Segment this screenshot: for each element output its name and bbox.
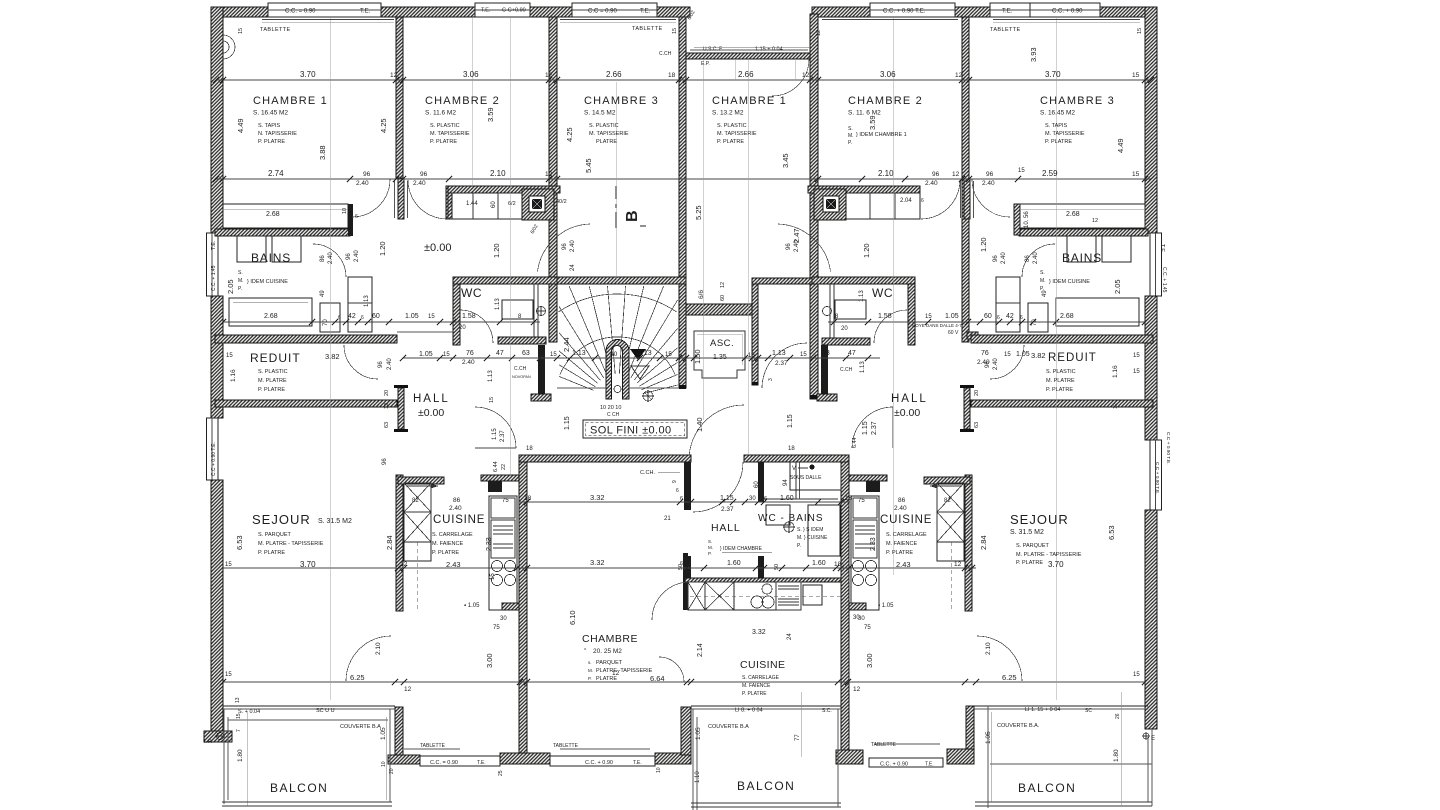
window T.E. chambre2 left bbox=[475, 3, 530, 17]
svg-text:20: 20 bbox=[841, 326, 848, 332]
svg-text:2.68: 2.68 bbox=[264, 313, 278, 320]
svg-text:2.43: 2.43 bbox=[896, 560, 911, 569]
svg-text:CUISINE: CUISINE bbox=[433, 514, 485, 526]
svg-text:CHAMBRE 1: CHAMBRE 1 bbox=[712, 95, 787, 107]
balcony right 1.80 witness bbox=[1120, 692, 1122, 806]
tablette line right unit bbox=[875, 743, 940, 745]
svg-text:20: 20 bbox=[384, 390, 390, 396]
bains left vanity box1 bbox=[237, 236, 266, 262]
bains right tub bbox=[1056, 298, 1139, 326]
svg-text:BAINS: BAINS bbox=[251, 251, 291, 265]
svg-text:▪ 1.05: ▪ 1.05 bbox=[464, 603, 480, 609]
svg-text:2.40: 2.40 bbox=[356, 180, 369, 187]
svg-text:S. 13.2 M2: S. 13.2 M2 bbox=[712, 110, 744, 117]
svg-text:1.16: 1.16 bbox=[1112, 365, 1119, 378]
svg-text:2.14: 2.14 bbox=[697, 643, 704, 657]
partition chambre2/chambre3 right bbox=[962, 17, 969, 342]
vent dot bbox=[798, 467, 808, 469]
svg-text:C.C. + 0.90: C.C. + 0.90 bbox=[1052, 9, 1083, 15]
bains right vanity box2 bbox=[1102, 236, 1131, 262]
svg-text:10: 10 bbox=[381, 761, 387, 767]
shaft wall left of stair bbox=[538, 345, 545, 394]
svg-text:96: 96 bbox=[993, 255, 999, 262]
svg-text:96: 96 bbox=[932, 171, 940, 178]
wall stair/asc header bbox=[686, 304, 758, 315]
svg-text:S. 31.5 M2: S. 31.5 M2 bbox=[1010, 529, 1044, 536]
partition P1 lower stub bbox=[398, 179, 404, 219]
svg-text:2.68: 2.68 bbox=[1066, 211, 1080, 218]
door arc chambre bottom bbox=[659, 657, 684, 682]
cuisine right burner2 bbox=[866, 561, 877, 572]
svg-text:4.49: 4.49 bbox=[1116, 138, 1125, 153]
svg-text:1.60: 1.60 bbox=[727, 560, 741, 567]
svg-text:C.C. = 0.90: C.C. = 0.90 bbox=[430, 760, 458, 766]
cuisine left burner2 bbox=[505, 561, 516, 572]
chambre3 right wardrobe shelf bbox=[1020, 208, 1145, 210]
svg-text:12: 12 bbox=[816, 30, 822, 36]
chambre1 wardrobe end wall bbox=[348, 204, 353, 236]
svg-text:1.20: 1.20 bbox=[862, 243, 871, 258]
balcony 1.80 witness bbox=[246, 712, 248, 806]
wc right cistern bbox=[835, 300, 866, 319]
chambre3 right wardrobe bbox=[1020, 204, 1145, 228]
svg-text:REDUIT: REDUIT bbox=[250, 351, 301, 365]
bains right closet tall bbox=[996, 277, 1020, 332]
svg-text:P.: P. bbox=[797, 543, 801, 549]
wc-bains bottom sink bbox=[766, 505, 790, 525]
middle-east wall foot bbox=[836, 750, 863, 764]
kitchen appliance top stub right bbox=[849, 475, 887, 481]
svg-text:1.60: 1.60 bbox=[780, 495, 794, 502]
svg-text:94: 94 bbox=[783, 479, 789, 486]
counter top edge middle bbox=[685, 578, 841, 582]
svg-text:C.C. + 0.90 T.E.: C.C. + 0.90 T.E. bbox=[883, 9, 926, 15]
bains right vanity box1 bbox=[1067, 236, 1096, 262]
svg-text:3.06: 3.06 bbox=[463, 70, 479, 79]
shaft inner square right bbox=[823, 196, 839, 212]
svg-text:P.: P. bbox=[588, 676, 592, 681]
svg-text:3.32: 3.32 bbox=[590, 558, 605, 567]
svg-text:6: 6 bbox=[361, 315, 364, 321]
stair direction triangle bbox=[630, 349, 646, 360]
tablette shelf line ch3l b bbox=[560, 21, 676, 23]
svg-text:3.70: 3.70 bbox=[1045, 70, 1061, 79]
svg-text:TABLETTE: TABLETTE bbox=[260, 27, 291, 33]
svg-text:S. 16.45 M2: S. 16.45 M2 bbox=[1040, 110, 1075, 117]
bottom chambre east wall bbox=[681, 707, 691, 755]
svg-text:82: 82 bbox=[412, 498, 419, 504]
cuisine left counter column bbox=[489, 496, 517, 610]
svg-text:E: E bbox=[1151, 736, 1155, 742]
door arc sejour right balcony bbox=[977, 636, 1022, 681]
svg-text:2.40: 2.40 bbox=[1033, 252, 1039, 264]
svg-text:P. PLATRE: P. PLATRE bbox=[258, 550, 285, 556]
svg-text:2.33: 2.33 bbox=[486, 537, 493, 551]
svg-text:1.60: 1.60 bbox=[812, 560, 826, 567]
svg-text:12: 12 bbox=[802, 72, 810, 79]
svg-text:30: 30 bbox=[500, 616, 507, 622]
svg-text:M.: M. bbox=[588, 668, 593, 673]
door arc wc left bbox=[460, 310, 493, 343]
svg-text:5.45: 5.45 bbox=[584, 158, 593, 173]
svg-text:75: 75 bbox=[502, 498, 509, 504]
svg-text:S. PLASTIC: S. PLASTIC bbox=[589, 123, 619, 129]
svg-text:40/2: 40/2 bbox=[556, 199, 567, 205]
svg-text:10: 10 bbox=[656, 767, 662, 773]
svg-text:1.16: 1.16 bbox=[230, 369, 237, 382]
svg-text:2.40: 2.40 bbox=[413, 180, 426, 187]
svg-text:1.13: 1.13 bbox=[772, 350, 786, 357]
door arc reduit right bbox=[990, 345, 1024, 379]
svg-text:1.35: 1.35 bbox=[713, 354, 727, 361]
left wall foot balcony bbox=[204, 731, 232, 742]
svg-text:M. FAIENCE: M. FAIENCE bbox=[432, 541, 464, 547]
window C.C.+0.90 left (sejour) bbox=[207, 418, 219, 480]
svg-text:15: 15 bbox=[1133, 353, 1140, 359]
door arc hall to cuisine left bbox=[475, 407, 516, 448]
partition middle chambre1 right bbox=[810, 14, 818, 399]
door arc sejour left balcony bbox=[346, 636, 391, 681]
recessed top wall middle chambre1 bbox=[686, 53, 812, 59]
svg-text:75: 75 bbox=[864, 625, 871, 631]
svg-text:S. CARRELAGE: S. CARRELAGE bbox=[742, 675, 780, 681]
bains left vanity box2 bbox=[272, 236, 301, 262]
stair open arrow bbox=[631, 366, 649, 379]
svg-text:M.: M. bbox=[848, 133, 854, 139]
svg-text:1.05: 1.05 bbox=[695, 727, 702, 740]
svg-text:2.40: 2.40 bbox=[387, 358, 393, 370]
wall chambre-bottom west bbox=[519, 455, 527, 753]
svg-text:60: 60 bbox=[984, 313, 992, 320]
cuisine right dashed line bbox=[950, 542, 952, 610]
svg-text:15: 15 bbox=[550, 352, 557, 358]
cuisine-bottom cupboard large bbox=[705, 582, 734, 610]
svg-text:C.C. + 0.90: C.C. + 0.90 bbox=[585, 760, 613, 766]
closet divider bbox=[472, 193, 474, 219]
cuisine-bottom cupboard small bbox=[688, 582, 705, 610]
svg-text:15: 15 bbox=[1133, 369, 1140, 375]
door arc reduit left bbox=[344, 345, 378, 379]
svg-text:HALL: HALL bbox=[711, 522, 740, 534]
kitchen arrow right bbox=[930, 485, 962, 487]
svg-text:3.00: 3.00 bbox=[865, 653, 874, 668]
cuisine left cupboard lower bbox=[404, 512, 431, 542]
bottom wall east piece bbox=[655, 753, 691, 764]
svg-text:15: 15 bbox=[490, 573, 496, 580]
window TE chambre3 right bbox=[990, 3, 1030, 17]
dim line top row bbox=[216, 79, 1151, 81]
svg-text:20: 20 bbox=[389, 768, 395, 774]
door arc corridor to right unit bbox=[762, 343, 807, 388]
svg-text:±0.00: ±0.00 bbox=[894, 407, 920, 419]
svg-text:1.80: 1.80 bbox=[237, 749, 244, 762]
wc-bains bottom tub bbox=[808, 505, 840, 556]
svg-text:V: V bbox=[792, 466, 796, 472]
balcony left east side bbox=[389, 709, 391, 802]
balcony right slab edge bbox=[990, 763, 1152, 765]
svg-text:63: 63 bbox=[974, 422, 980, 428]
svg-text:S. } S IDEM: S. } S IDEM bbox=[797, 527, 823, 533]
svg-text:60 V: 60 V bbox=[948, 330, 959, 336]
svg-text:S. TAPIS: S. TAPIS bbox=[258, 123, 280, 129]
svg-text:SEJOUR: SEJOUR bbox=[252, 512, 311, 527]
svg-text:T.E.: T.E. bbox=[360, 9, 371, 15]
chambre1 left bottom wall bbox=[215, 229, 350, 236]
balcony right corner symbol bbox=[1143, 733, 1149, 739]
cuisine left burner4 bbox=[505, 575, 516, 586]
kitchen duct block right bbox=[866, 481, 880, 492]
chambre3 right bottom wall bbox=[1019, 229, 1148, 236]
svg-text:10: 10 bbox=[342, 208, 348, 214]
hall west stub wall bbox=[398, 388, 404, 429]
svg-text:1.13: 1.13 bbox=[860, 361, 866, 373]
witness line vertical bbox=[509, 18, 511, 475]
SOL FINI label box bbox=[583, 420, 687, 438]
svg-text:2.37: 2.37 bbox=[775, 360, 788, 367]
svg-text:15: 15 bbox=[925, 314, 932, 320]
svg-text:2.40: 2.40 bbox=[354, 250, 360, 262]
svg-text:15: 15 bbox=[1137, 28, 1143, 34]
door arc hall to cuisine right bbox=[852, 407, 893, 448]
window glazing line bbox=[990, 9, 1030, 11]
partition chambre3 left / stairwell bbox=[679, 17, 686, 388]
svg-text:BAINS: BAINS bbox=[1062, 251, 1102, 265]
svg-text:18: 18 bbox=[668, 72, 676, 79]
window glazing line bbox=[870, 9, 955, 11]
svg-text:CUISINE: CUISINE bbox=[880, 514, 932, 526]
cuisine left burner1 bbox=[492, 561, 503, 572]
svg-text:C-C+0.90: C-C+0.90 bbox=[502, 8, 526, 14]
window glazing line bbox=[572, 9, 657, 11]
svg-text:49: 49 bbox=[320, 290, 326, 297]
window glazing left sejour bbox=[211, 418, 213, 480]
svg-text:1.15: 1.15 bbox=[862, 421, 869, 435]
stair flight line2 bbox=[629, 387, 679, 389]
wc left west wall bbox=[453, 284, 460, 345]
svg-text:M. } CUISINE: M. } CUISINE bbox=[797, 535, 828, 541]
svg-text:6: 6 bbox=[997, 315, 1000, 321]
svg-text:M. FAIENCE: M. FAIENCE bbox=[742, 683, 771, 689]
svg-text:C.C + 0.90 T.E.: C.C + 0.90 T.E. bbox=[211, 442, 217, 476]
svg-text:12: 12 bbox=[954, 561, 962, 568]
wc left partition east2 bbox=[537, 284, 539, 342]
svg-text:40: 40 bbox=[610, 351, 618, 358]
wc right east wall bbox=[908, 284, 915, 345]
closet west wall chambre2 left bbox=[446, 186, 452, 219]
cuisine-bottom sink unit bbox=[734, 582, 776, 610]
right balcony sill b bbox=[974, 708, 1148, 710]
svg-text:3.88: 3.88 bbox=[318, 145, 327, 160]
dim ticks corridor row bbox=[400, 355, 871, 361]
svg-text:15: 15 bbox=[443, 352, 450, 358]
svg-text:6.44: 6.44 bbox=[493, 461, 499, 472]
svg-text:} IDEM CUISINE: } IDEM CUISINE bbox=[1049, 279, 1090, 285]
svg-text:S.C.: S.C. bbox=[822, 708, 832, 714]
cuisine-bottom stove grill bbox=[776, 582, 801, 610]
door arc middle unit entrance bbox=[689, 405, 744, 460]
svg-text:} IDEM CUISINE: } IDEM CUISINE bbox=[247, 279, 288, 285]
svg-text:P. PLATRE: P. PLATRE bbox=[430, 139, 457, 145]
svg-text:2.33: 2.33 bbox=[870, 537, 877, 551]
stair fan outer arc bbox=[558, 294, 677, 312]
svg-text:1.15: 1.15 bbox=[720, 495, 734, 502]
stair fan walking arc bbox=[560, 337, 675, 374]
wc right top wall bbox=[812, 277, 915, 284]
balcony right west side bbox=[987, 706, 989, 808]
svg-text:15: 15 bbox=[1132, 171, 1140, 178]
balcony middle bottom b bbox=[691, 806, 841, 808]
svg-text:6: 6 bbox=[680, 496, 683, 502]
svg-text:1.20: 1.20 bbox=[979, 237, 988, 252]
witness line vertical bbox=[471, 18, 473, 186]
sink circle bottom right bbox=[762, 596, 774, 608]
bains left tub bbox=[229, 298, 312, 326]
wc-bains partition b bbox=[799, 462, 801, 499]
dim ticks middle row2 bbox=[395, 565, 975, 571]
svg-text:2.40: 2.40 bbox=[977, 359, 990, 366]
window glazing line bbox=[268, 9, 381, 11]
svg-text:1.20: 1.20 bbox=[378, 241, 387, 256]
svg-text:1.05: 1.05 bbox=[945, 313, 959, 320]
svg-text:SC: SC bbox=[1085, 708, 1092, 714]
svg-text:1.13: 1.13 bbox=[638, 350, 652, 357]
bains tub inner bbox=[233, 301, 308, 303]
partition chambre1/chambre2 left bbox=[396, 17, 403, 178]
svg-text:S.: S. bbox=[1040, 270, 1045, 276]
svg-text:3.32: 3.32 bbox=[752, 629, 766, 636]
svg-text:WC: WC bbox=[461, 286, 482, 300]
door arc middle chambre1 bbox=[772, 59, 809, 96]
svg-text:30: 30 bbox=[749, 496, 756, 502]
svg-text:▪ 1.05: ▪ 1.05 bbox=[878, 603, 894, 609]
svg-text:1.13: 1.13 bbox=[364, 295, 370, 307]
svg-text:NOYE DANS DALLE 4-7: NOYE DANS DALLE 4-7 bbox=[912, 323, 962, 328]
svg-text:2.37: 2.37 bbox=[871, 421, 878, 435]
svg-text:60: 60 bbox=[720, 295, 726, 301]
svg-text:2.43: 2.43 bbox=[446, 560, 461, 569]
svg-text:±0.00: ±0.00 bbox=[418, 407, 444, 419]
svg-text:C.CH: C.CH bbox=[840, 367, 853, 373]
outer wall top segment CH3L bbox=[657, 7, 690, 17]
svg-text:P. PLATRE: P. PLATRE bbox=[1016, 560, 1043, 566]
wall cap P1-right stub bbox=[964, 216, 970, 219]
svg-text:S. PLASTIC: S. PLASTIC bbox=[1046, 369, 1076, 375]
svg-text:12: 12 bbox=[384, 403, 390, 409]
outer wall left lower bbox=[211, 480, 223, 732]
svg-text:12: 12 bbox=[955, 72, 963, 79]
svg-text:18: 18 bbox=[788, 446, 795, 452]
hall-bottom west wall bbox=[684, 462, 691, 510]
svg-text:C.CH.: C.CH. bbox=[640, 470, 655, 476]
witness line vertical bbox=[747, 60, 749, 455]
balcony left east side2 bbox=[385, 717, 387, 800]
svg-text:TABLETTE: TABLETTE bbox=[420, 743, 446, 749]
svg-text:60: 60 bbox=[491, 201, 497, 208]
door arc cuisine bottom bbox=[652, 582, 690, 620]
svg-text:4.25: 4.25 bbox=[565, 127, 574, 142]
svg-text:P.: P. bbox=[848, 140, 852, 146]
bains right washer bbox=[1028, 303, 1048, 332]
B section cut line bbox=[615, 186, 617, 228]
svg-text:M. PLATRE: M. PLATRE bbox=[258, 378, 287, 384]
svg-text:1.05: 1.05 bbox=[405, 313, 419, 320]
shaft wall right corridor bbox=[821, 345, 828, 394]
door arc chambre2 left bbox=[408, 180, 447, 219]
svg-text:6.10: 6.10 bbox=[568, 610, 577, 625]
shaft inner square left bbox=[529, 196, 545, 212]
closet top wall chambre2 right bbox=[808, 186, 920, 193]
svg-text:1.13: 1.13 bbox=[572, 350, 586, 357]
svg-text:76: 76 bbox=[981, 350, 989, 357]
cuisine-bottom oven bbox=[803, 585, 822, 605]
dim ticks bottom row bbox=[220, 679, 1148, 685]
bottom wall pier middle bbox=[500, 753, 550, 764]
svg-text:2.04: 2.04 bbox=[900, 198, 912, 204]
sejour left balcony sill b bbox=[223, 708, 395, 710]
svg-text:5.25: 5.25 bbox=[694, 205, 703, 220]
dim ticks bains row right bbox=[831, 319, 1148, 325]
door arc chambre3 left lower bbox=[538, 224, 591, 271]
svg-text:12: 12 bbox=[612, 670, 620, 677]
svg-text:M.: M. bbox=[238, 278, 244, 284]
svg-text:P. PLATRE: P. PLATRE bbox=[1045, 139, 1072, 145]
counter dashed centerline bbox=[690, 595, 841, 597]
svg-text:6/2: 6/2 bbox=[508, 201, 516, 207]
sink circle top bbox=[762, 584, 772, 594]
svg-text:2.84: 2.84 bbox=[385, 535, 394, 550]
svg-text:S. 11.6 M2: S. 11.6 M2 bbox=[425, 110, 456, 117]
svg-text:12: 12 bbox=[545, 72, 553, 79]
svg-text:15: 15 bbox=[225, 562, 232, 568]
svg-text:SOL FINI ±0.00: SOL FINI ±0.00 bbox=[590, 425, 672, 437]
svg-text:CHAMBRE 3: CHAMBRE 3 bbox=[1040, 95, 1115, 107]
svg-text:P.: P. bbox=[1040, 286, 1044, 292]
svg-text:75: 75 bbox=[858, 498, 865, 504]
svg-text:2.66: 2.66 bbox=[738, 70, 754, 79]
svg-text:P. PLATRE: P. PLATRE bbox=[1046, 387, 1073, 393]
svg-text:6: 6 bbox=[1020, 315, 1023, 321]
svg-text:1.05: 1.05 bbox=[419, 351, 433, 358]
left foot circle symbol bbox=[217, 733, 224, 740]
svg-text:3.00: 3.00 bbox=[485, 653, 494, 668]
svg-text:3.32: 3.32 bbox=[590, 493, 605, 502]
witness line vertical bbox=[892, 18, 894, 575]
balcony middle outline bbox=[693, 709, 697, 810]
corridor top wall right of asc bbox=[752, 278, 812, 284]
svg-text:6: 6 bbox=[676, 488, 679, 494]
balcony right west side b bbox=[990, 712, 992, 802]
wall bains/reduit left bbox=[215, 335, 397, 343]
svg-text:LI 8. + 0 04: LI 8. + 0 04 bbox=[735, 708, 763, 714]
wc left cistern bbox=[502, 300, 533, 319]
svg-text:25: 25 bbox=[498, 770, 504, 776]
svg-text:6: 6 bbox=[760, 561, 763, 567]
svg-text:10. 56: 10. 56 bbox=[1024, 211, 1030, 228]
svg-text:2.84: 2.84 bbox=[979, 535, 988, 550]
wc left partition east bbox=[533, 284, 535, 342]
svg-text:S. TAPIS: S. TAPIS bbox=[1045, 123, 1067, 129]
wc left bottom wall bbox=[498, 337, 546, 344]
svg-text:M. PLATRE: M. PLATRE bbox=[1046, 378, 1075, 384]
svg-text:C.C. + 1.45: C.C. + 1.45 bbox=[211, 265, 217, 291]
wc left bowl symbol bbox=[537, 307, 546, 316]
svg-text:2.10: 2.10 bbox=[375, 642, 382, 655]
svg-text:2.68: 2.68 bbox=[266, 211, 280, 218]
svg-text:24: 24 bbox=[787, 633, 793, 640]
svg-text:WC: WC bbox=[872, 286, 893, 300]
stub flank line bbox=[407, 181, 409, 218]
kitchen duct block left bbox=[488, 481, 502, 492]
